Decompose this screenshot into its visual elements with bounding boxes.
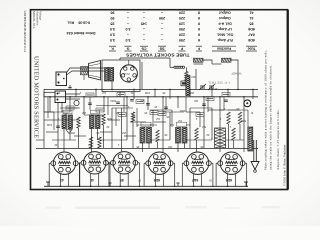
resistor R11 (98, 137, 101, 148)
svg-text:120: 120 (179, 22, 185, 26)
label I-F DETAIL (207, 81, 230, 85)
svg-text:6A7: 6A7 (248, 32, 254, 36)
core mark below T2 (66, 130, 72, 134)
publisher credit (282, 144, 288, 186)
svg-text:6: 6 (198, 22, 200, 26)
svg-text:Ampere drain: 7.25 amperes at: Ampere drain: 7.25 amperes at 6 volts. (276, 109, 280, 170)
page border frame (31, 10, 288, 190)
svg-text:250: 250 (179, 38, 185, 42)
svg-text:.02: .02 (116, 111, 120, 115)
svg-text:1M: 1M (178, 119, 182, 123)
svg-text:6D6: 6D6 (154, 178, 160, 182)
svg-text:.05: .05 (214, 87, 218, 91)
svg-text:10M: 10M (47, 123, 52, 127)
capacitors C2-C9 (56, 100, 228, 128)
svg-text:Osc. Mod.: Osc. Mod. (217, 32, 234, 36)
svg-text:10M: 10M (145, 91, 150, 95)
label tube V1 (60, 178, 64, 182)
label tube V5 (192, 178, 198, 182)
speaker plug receptacle (56, 72, 67, 86)
wire top right (203, 60, 238, 70)
tube V4 (6D6) (146, 152, 173, 174)
svg-text:3.0: 3.0 (110, 32, 115, 36)
resistor R7 (227, 112, 230, 124)
dial lamp (244, 100, 251, 107)
svg-text:2M: 2M (140, 99, 144, 103)
svg-text:.02: .02 (206, 133, 210, 137)
resistor R2 (77, 117, 80, 128)
svg-text:UNITED MOTORS SERVICE: UNITED MOTORS SERVICE (32, 56, 39, 138)
svg-text:Det. A-F: Det. A-F (218, 22, 232, 26)
svg-text:Delco Model 634: Delco Model 634 (66, 31, 96, 35)
svg-text:41: 41 (250, 11, 254, 15)
svg-text:Voltage: Voltage (38, 11, 42, 21)
tube voltage table (109, 11, 257, 51)
svg-text:6: 6 (198, 11, 200, 15)
resistor box labels (66, 93, 230, 117)
running head UNITED MOTORS PAGE 8-31 (23, 11, 27, 53)
pilot lamp circle (74, 100, 79, 105)
svg-text:Output: Output (218, 11, 230, 15)
wire bottom bus (44, 185, 248, 187)
svg-text:50M: 50M (241, 119, 246, 123)
svg-text:3M: 3M (194, 99, 198, 103)
svg-text:using the scale on which the l: using the scale on which the largest def… (269, 65, 273, 170)
wire plug leads (44, 68, 104, 112)
svg-text:Tube: Tube (247, 46, 255, 50)
svg-text:3.0: 3.0 (126, 27, 131, 31)
svg-text:.02: .02 (54, 143, 58, 147)
wire heater bus (36, 147, 258, 149)
tube V6 (6D6) (218, 152, 245, 174)
svg-text:8M: 8M (168, 145, 172, 149)
svg-text:I-F Amp.: I-F Amp. (218, 27, 232, 31)
svg-text:6: 6 (198, 32, 200, 36)
svg-text:G: G (126, 46, 129, 50)
svg-text:2M: 2M (122, 131, 126, 135)
svg-text:50M: 50M (107, 117, 112, 121)
model info block (31, 11, 42, 29)
antenna lead-in (251, 140, 259, 172)
svg-text:TUBE SOCKET VOLTAGES: TUBE SOCKET VOLTAGES (125, 52, 189, 58)
resistor R1 (185, 67, 196, 89)
wire vertical drops (44, 62, 253, 120)
svg-text:1M: 1M (102, 91, 106, 95)
svg-text:Res.: Res. (67, 21, 74, 25)
tuning condenser gang (215, 128, 226, 148)
svg-text:6D6: 6D6 (248, 38, 254, 42)
IF transformer T4 (140, 128, 152, 144)
svg-text:Function: Function (217, 46, 231, 50)
svg-text:250: 250 (159, 16, 165, 20)
svg-text:5M: 5M (202, 125, 206, 129)
svg-text:X: X (224, 143, 226, 147)
svg-text:R-F Amp.: R-F Amp. (217, 38, 232, 42)
svg-text:1M: 1M (170, 123, 174, 127)
svg-text:3.0: 3.0 (110, 27, 115, 31)
choke L1 (170, 58, 185, 68)
svg-text:2M: 2M (82, 111, 86, 115)
label tube V2 (90, 178, 94, 182)
resistor R10 (89, 137, 92, 148)
label tube V4 (154, 178, 160, 182)
svg-text:2M: 2M (190, 91, 194, 95)
svg-text:.02: .02 (106, 125, 110, 129)
wire B+ bus (44, 88, 258, 90)
tube V3 (85) (111, 152, 138, 174)
svg-text:250: 250 (179, 27, 185, 31)
svg-text:Output: Output (218, 16, 230, 20)
ground symbols (46, 182, 248, 186)
svg-text:6A7: 6A7 (192, 178, 198, 182)
svg-text:PLUG: PLUG (123, 72, 130, 76)
fuse box (181, 81, 187, 86)
svg-text:.05: .05 (136, 123, 140, 127)
svg-text:6D6: 6D6 (248, 27, 254, 31)
IF transformer T3 (90, 115, 101, 129)
svg-text:1M: 1M (88, 143, 92, 147)
svg-text:.05: .05 (136, 145, 140, 149)
svg-text:90: 90 (111, 11, 115, 15)
faint bleed-through (45, 206, 280, 209)
tube V5 (6A7) (184, 152, 211, 174)
junction dots (49, 89, 254, 98)
svg-text:.05: .05 (96, 131, 100, 135)
output transformer T1 (105, 68, 114, 82)
resistor R3 (102, 114, 105, 125)
svg-text:5MΩ: 5MΩ (110, 99, 116, 103)
svg-text:8-18-36: 8-18-36 (78, 21, 90, 25)
svg-text:400: 400 (191, 75, 196, 79)
svg-text:3.0: 3.0 (110, 38, 115, 42)
label tube V3 (120, 178, 124, 182)
svg-text:.05: .05 (200, 145, 204, 149)
speaker (81, 61, 101, 81)
IF transformer T5 (176, 128, 188, 144)
label tube V6 (226, 178, 232, 182)
svg-text:.05: .05 (164, 133, 168, 137)
antenna coil L5 (248, 127, 253, 151)
svg-text:.0001: .0001 (179, 109, 186, 113)
svg-text:6: 6 (198, 16, 200, 20)
svg-text:220: 220 (179, 32, 185, 36)
svg-text:220: 220 (179, 16, 185, 20)
svg-text:41: 41 (250, 16, 254, 20)
svg-text:35: 35 (111, 22, 115, 26)
svg-text:I-F DETAIL: I-F DETAIL (207, 81, 230, 85)
svg-text:“A” HOT: “A” HOT (231, 72, 242, 76)
oscillator coil L2 (194, 58, 204, 64)
svg-text:1M: 1M (186, 123, 190, 127)
IF transformer labels (63, 110, 187, 126)
svg-text:220: 220 (179, 11, 185, 15)
vibrator unit (55, 91, 66, 103)
svg-text:90: 90 (111, 16, 115, 20)
svg-text:.25: .25 (236, 107, 240, 111)
svg-text:1M: 1M (156, 117, 160, 121)
svg-text:UNITED MOTORS PAGE 8-31: UNITED MOTORS PAGE 8-31 (23, 11, 27, 53)
svg-text:145: 145 (141, 22, 147, 26)
svg-text:3.0: 3.0 (126, 38, 131, 42)
pin number labels (138, 179, 212, 182)
component value labels (47, 87, 253, 149)
svg-text:6: 6 (198, 38, 200, 42)
note: plate readings (264, 50, 273, 170)
table caption Delco Model 634 (66, 21, 96, 36)
title UNITED MOTORS SERVICE (32, 56, 39, 138)
tube V2 (41) (81, 152, 108, 174)
svg-text:.05: .05 (162, 91, 166, 95)
tube V1 (41) (51, 152, 78, 174)
svg-text:6D6: 6D6 (226, 178, 232, 182)
note: ampere drain (276, 109, 280, 170)
wire tube cathode drops (49, 163, 247, 187)
svg-text:85: 85 (250, 22, 254, 26)
IF transformer T2 (62, 115, 73, 129)
wire lower connections (36, 97, 248, 152)
svg-text:.05: .05 (64, 112, 68, 116)
resistor R9 (232, 128, 235, 140)
resistor R8 (238, 112, 241, 124)
resistor R4 (131, 112, 134, 122)
svg-text:250: 250 (70, 131, 75, 135)
label A HOT (231, 72, 242, 76)
svg-text:B: B (251, 111, 253, 115)
svg-text:CG: CG (141, 46, 146, 50)
coil L3 (222, 58, 232, 62)
capacitor C1 (68, 85, 71, 89)
wire ground bus (44, 96, 258, 98)
svg-text:F: F (198, 46, 200, 50)
svg-text:6: 6 (198, 27, 200, 31)
antenna coil L4 (186, 76, 190, 96)
wire transformer box (102, 58, 170, 92)
resistor R6 (195, 128, 198, 140)
svg-text:.02: .02 (132, 115, 136, 119)
svg-text:SG: SG (159, 46, 164, 50)
svg-text:.05: .05 (166, 115, 170, 119)
trimmer capacitors (199, 84, 215, 90)
svg-text:.05: .05 (144, 111, 148, 115)
title TUBE SOCKET VOLTAGES (125, 52, 189, 58)
svg-text:.25: .25 (154, 105, 158, 109)
svg-text:.01: .01 (130, 91, 134, 95)
resistor R5 (156, 130, 159, 142)
